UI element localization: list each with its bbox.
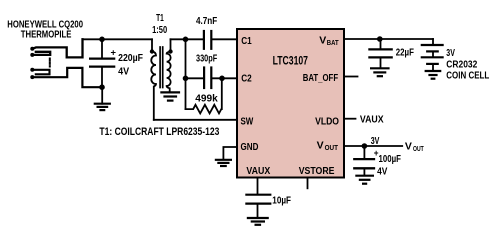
svg-text:T1: T1	[156, 12, 164, 24]
capacitor 100uF lead top	[363, 146, 365, 158]
thermopile TP1 prong 1 (top output)	[32, 39, 82, 57]
svg-text:499k: 499k	[195, 92, 218, 104]
thermopile prong 3	[33, 70, 50, 75]
capacitor 100uF lead bottom	[363, 169, 365, 174]
svg-text:VSTORE: VSTORE	[299, 165, 335, 177]
IC U1 LTC3107 body	[237, 29, 344, 178]
svg-text:4V: 4V	[377, 166, 387, 178]
node 4.7nF branch	[183, 37, 189, 43]
capacitor 22uF lead top	[380, 39, 382, 49]
svg-text:C2: C2	[241, 73, 252, 85]
wire C2 right segment to C2 pin	[212, 77, 237, 79]
wire VBAT rail	[344, 38, 433, 40]
VLDO stub to VAUX label	[344, 118, 356, 120]
VAUX pin lead	[257, 178, 259, 194]
svg-text:LTC3107: LTC3107	[273, 55, 308, 67]
svg-text:V: V	[319, 34, 326, 46]
svg-text:3V: 3V	[371, 135, 380, 147]
capacitor 220uF lead top	[101, 39, 103, 57]
svg-text:OUT: OUT	[325, 143, 339, 152]
thermopile terminal dot C	[30, 68, 34, 72]
svg-text:1:50: 1:50	[152, 24, 167, 36]
svg-text:3V: 3V	[446, 47, 455, 59]
transformer T1 secondary top lead	[170, 39, 172, 50]
wire top rail left	[83, 38, 153, 40]
ground under transformer secondary	[161, 92, 179, 100]
capacitor 22uF plates	[369, 48, 391, 50]
node top of C220	[99, 37, 105, 43]
node 100uF branch	[362, 143, 368, 149]
resistor 499k leads and zigzag	[186, 78, 222, 113]
svg-text:VLDO: VLDO	[315, 115, 339, 127]
svg-text:100µF: 100µF	[379, 153, 402, 165]
capacitor C 220uF plates	[90, 57, 114, 59]
node C2 left	[183, 76, 189, 82]
wire C2 left segment	[186, 77, 204, 79]
ground under 220uF	[95, 87, 110, 110]
svg-text:OUT: OUT	[413, 144, 424, 153]
thermopile terminal dot D	[30, 75, 34, 79]
transformer T1 primary lead	[151, 39, 153, 50]
thermopile prong 2	[33, 52, 50, 55]
svg-text:4.7nF: 4.7nF	[196, 15, 218, 27]
battery bottom lead	[432, 65, 434, 71]
capacitor 10uF plates	[246, 194, 270, 196]
battery BT1 lead	[432, 39, 434, 44]
capacitor 22uF lead bottom	[380, 59, 382, 68]
transformer T1 secondary phase dot	[168, 49, 172, 53]
wire 4.7nF to C1 pin	[212, 38, 237, 40]
thermopile terminal dot B	[30, 53, 34, 57]
node bottom of C220	[99, 84, 105, 90]
capacitor 100uF plates	[354, 158, 374, 160]
svg-text:VAUX: VAUX	[360, 114, 384, 126]
thermopile series dotted line	[49, 59, 51, 67]
svg-text:4V: 4V	[118, 66, 129, 78]
ground under 22uF	[371, 68, 388, 76]
thermopile terminal dot A	[30, 47, 34, 51]
transformer T1 primary winding	[151, 52, 156, 120]
battery internal connector	[432, 52, 434, 56]
transformer T1 core	[159, 47, 161, 88]
svg-text:VAUX: VAUX	[246, 165, 270, 177]
svg-text:BAT: BAT	[327, 38, 339, 47]
ground under battery	[426, 71, 441, 79]
node C2 right	[219, 76, 225, 82]
svg-text:SW: SW	[241, 115, 254, 127]
wire branch vertical to resistor	[185, 39, 187, 109]
node 22uF branch	[377, 36, 383, 42]
transformer T1 secondary winding	[167, 52, 171, 93]
wire VOUT	[344, 145, 402, 147]
BAT_OFF open stub	[344, 76, 358, 78]
wire SW rail	[154, 119, 237, 121]
svg-text:COIN CELL: COIN CELL	[446, 70, 489, 82]
svg-text:+: +	[111, 48, 117, 58]
ground under 10uF	[248, 218, 268, 225]
svg-text:V: V	[317, 140, 324, 152]
ground under 100uF	[356, 176, 373, 184]
battery BT1 plates	[422, 44, 443, 46]
transformer T1 primary phase dot	[150, 49, 154, 53]
svg-text:10µF: 10µF	[272, 194, 291, 206]
svg-text:22µF: 22µF	[396, 46, 415, 58]
capacitor 220uF lead bottom	[101, 68, 103, 88]
VSTORE open stub	[307, 178, 309, 189]
svg-text:C1: C1	[241, 35, 252, 47]
svg-text:V: V	[405, 140, 412, 152]
svg-text:BAT_OFF: BAT_OFF	[303, 72, 339, 84]
capacitor 10uF lead bottom	[257, 205, 259, 217]
svg-text:T1: COILCRAFT LPR6235-123: T1: COILCRAFT LPR6235-123	[99, 126, 219, 138]
svg-text:330pF: 330pF	[196, 52, 218, 64]
wire top rail right	[171, 38, 204, 40]
svg-text:THERMOPILE: THERMOPILE	[21, 28, 72, 40]
ground at GND pin	[216, 160, 231, 166]
svg-text:220µF: 220µF	[118, 52, 143, 64]
thermopile prong 4 (bottom output)	[32, 68, 102, 87]
svg-text:GND: GND	[241, 141, 259, 153]
capacitor 330pF plates	[203, 68, 205, 89]
GND pin wire	[223, 147, 237, 159]
capacitor 4.7nF plates	[203, 31, 205, 49]
svg-text:CR2032: CR2032	[446, 58, 477, 70]
